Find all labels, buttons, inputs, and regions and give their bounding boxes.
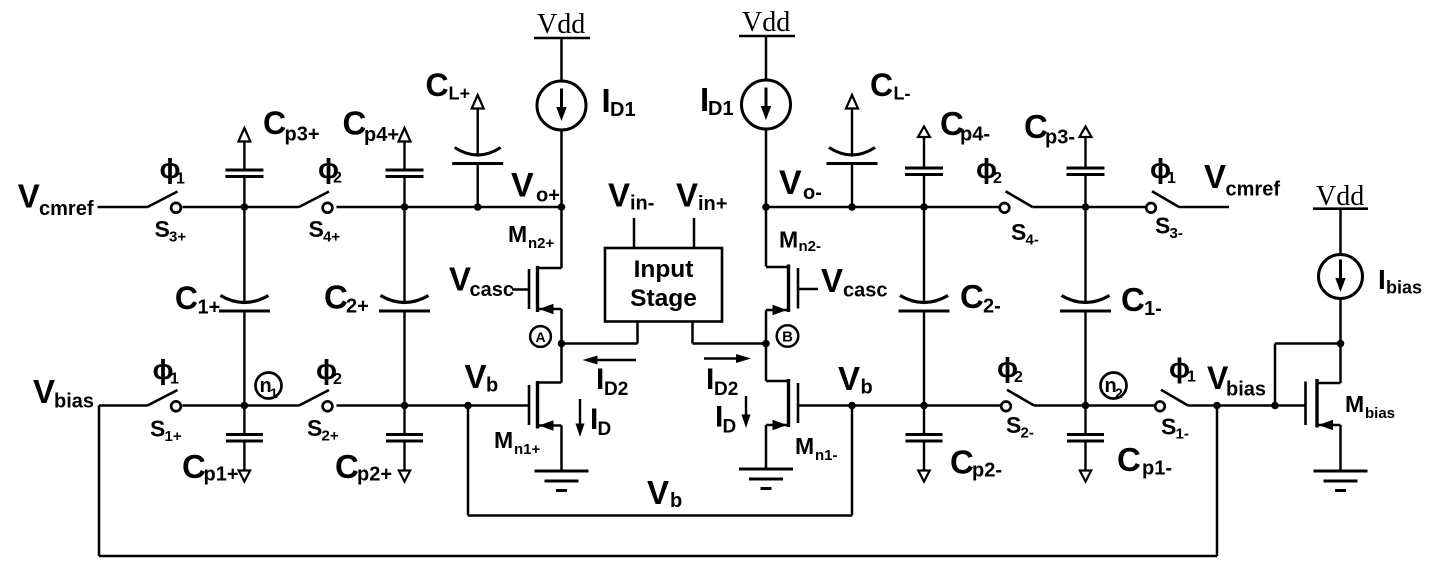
svg-text:o+: o+ bbox=[536, 185, 560, 207]
svg-text:1-: 1- bbox=[1144, 298, 1162, 320]
capacitor Cp1- bbox=[1067, 406, 1104, 482]
wire Vb junction to Cp2- node bbox=[852, 404, 924, 407]
label Vin- bbox=[608, 177, 654, 215]
svg-text:1+: 1+ bbox=[165, 428, 182, 445]
label C2+ bbox=[324, 279, 369, 318]
capacitor Cp3+ bbox=[225, 128, 263, 207]
current arrow ID (left) bbox=[576, 399, 585, 437]
junction n2 node on Vbias rail bbox=[1082, 402, 1090, 410]
junction Cp3+ / C1+ node on Vcmref rail bbox=[241, 203, 249, 211]
label Cp4+ bbox=[343, 105, 400, 147]
svg-text:o-: o- bbox=[803, 182, 822, 204]
capacitor Cp2+ bbox=[386, 406, 423, 482]
svg-text:S: S bbox=[155, 216, 170, 242]
node Vo+ junction bbox=[558, 203, 566, 211]
wire Vdd to current source Ibias bbox=[1339, 209, 1342, 255]
svg-text:n2-: n2- bbox=[799, 238, 822, 255]
label phi2 of S2+ bbox=[316, 354, 342, 388]
svg-text:4-: 4- bbox=[1026, 232, 1039, 249]
wire Cp3- node to switch S3- bbox=[1086, 206, 1147, 209]
svg-text:bias: bias bbox=[1386, 278, 1422, 298]
label Vbias (right) bbox=[1207, 360, 1266, 401]
wire n2 node to switch S1- bbox=[1086, 404, 1156, 407]
label Cp3+ bbox=[263, 105, 320, 146]
wire Vbias bottom rail right vertical bbox=[1216, 406, 1219, 557]
label S2+ bbox=[307, 415, 339, 445]
svg-text:M: M bbox=[494, 427, 513, 453]
label Cp4- bbox=[940, 105, 990, 146]
wire Vcmref to switch S3+ bbox=[98, 206, 148, 209]
label S3+ bbox=[155, 216, 187, 246]
switch S2- bbox=[1001, 390, 1034, 411]
wire Mn1- gate to Vb junction (right) bbox=[798, 404, 852, 407]
switch S3- bbox=[1146, 191, 1179, 212]
current source ID1 (right) bbox=[742, 80, 791, 129]
transistor Mn1+ bbox=[529, 381, 562, 431]
svg-text:S: S bbox=[1161, 414, 1176, 440]
svg-text:S: S bbox=[1006, 412, 1021, 438]
svg-text:M: M bbox=[779, 227, 798, 253]
svg-text:C: C bbox=[870, 67, 893, 103]
label phi1 of S1+ bbox=[153, 354, 180, 388]
svg-text:V: V bbox=[779, 164, 802, 202]
wire Vbias bottom rail left vertical bbox=[98, 406, 101, 557]
label S1+ bbox=[150, 416, 182, 446]
label ID (left) bbox=[590, 403, 611, 440]
label phi1 of S1- bbox=[1169, 353, 1196, 386]
svg-text:4+: 4+ bbox=[323, 229, 340, 246]
svg-text:Vdd: Vdd bbox=[1316, 181, 1364, 212]
label Vbias (left) bbox=[33, 373, 94, 413]
svg-text:1-: 1- bbox=[1176, 426, 1189, 443]
wire S3- to Vcmref (right) bbox=[1179, 206, 1229, 209]
svg-text:p1-: p1- bbox=[1142, 458, 1172, 480]
svg-text:V: V bbox=[18, 178, 40, 215]
wire node B to Mn1- drain bbox=[765, 344, 768, 382]
wire Vdd to current source ID1 (left) bbox=[560, 38, 563, 81]
svg-text:in-: in- bbox=[630, 193, 654, 215]
current arrow ID2 (right) bbox=[704, 354, 751, 363]
wire node A to Mn1+ drain bbox=[560, 344, 563, 383]
wire input stage right lead to node B bbox=[693, 342, 767, 345]
svg-text:3+: 3+ bbox=[169, 229, 186, 246]
wire Vb junction to Mn1+ gate bbox=[468, 404, 529, 407]
svg-text:n1-: n1- bbox=[815, 447, 838, 464]
capacitor Cp2- bbox=[906, 406, 943, 482]
label Mn2- bbox=[779, 227, 821, 256]
node n1 bbox=[256, 373, 282, 402]
label phi2 of S4- bbox=[976, 153, 1002, 187]
label phi2 of S2- bbox=[997, 352, 1023, 386]
svg-text:C: C bbox=[335, 448, 359, 485]
svg-text:2+: 2+ bbox=[346, 296, 369, 318]
wire Vb bottom rail left vertical bbox=[467, 406, 470, 516]
switch S4- bbox=[1000, 191, 1033, 212]
junction CL- node bbox=[848, 203, 856, 211]
wire Cp4- node to switch S4- bbox=[924, 206, 1000, 209]
svg-text:S: S bbox=[1155, 213, 1170, 239]
wire Mn1+ source to ground bbox=[560, 426, 563, 472]
svg-text:I: I bbox=[1378, 264, 1386, 295]
ground of Mn1- bbox=[739, 469, 793, 489]
svg-text:p2+: p2+ bbox=[357, 464, 392, 486]
ground of Mn1+ bbox=[535, 471, 589, 491]
svg-text:2-: 2- bbox=[1021, 425, 1034, 442]
label Vo- bbox=[779, 164, 822, 204]
svg-text:p1+: p1+ bbox=[204, 464, 239, 486]
svg-text:2-: 2- bbox=[983, 296, 1001, 318]
svg-text:p4+: p4+ bbox=[364, 124, 399, 146]
transistor Mn1- bbox=[766, 379, 798, 430]
wire Vb bottom rail horizontal bbox=[468, 514, 852, 517]
svg-text:V: V bbox=[511, 167, 534, 205]
wire Vcasc to Mn2+ gate bbox=[512, 288, 529, 291]
junction Vb rail drop (right) bbox=[848, 402, 856, 410]
wire diode feedback vertical bbox=[1274, 344, 1277, 406]
wire Mn2+ source to node A junction bbox=[560, 309, 563, 344]
svg-text:2: 2 bbox=[1014, 369, 1023, 386]
wire CL+ node to Vo+ node bbox=[478, 206, 562, 209]
current arrow ID (right) bbox=[742, 396, 751, 428]
label Vb (left gate) bbox=[465, 358, 499, 397]
wire S1+ to n1 node bbox=[183, 404, 245, 407]
capacitor C2+ bbox=[379, 207, 430, 406]
switch S4+ bbox=[299, 192, 332, 213]
svg-text:L-: L- bbox=[894, 84, 911, 104]
svg-text:M: M bbox=[1345, 391, 1364, 417]
capacitor CL+ bbox=[452, 95, 503, 207]
label ID1 (right) bbox=[700, 81, 734, 120]
label S3- bbox=[1155, 213, 1183, 243]
wire Ibias to Mbias drain junction bbox=[1339, 299, 1342, 384]
junction n1 node on Vbias rail bbox=[241, 402, 249, 410]
label S2- bbox=[1006, 412, 1034, 442]
svg-text:C: C bbox=[426, 67, 449, 103]
junction Cp3- / C1- node bbox=[1082, 203, 1090, 211]
switch S2+ bbox=[299, 390, 332, 411]
svg-text:V: V bbox=[647, 474, 669, 511]
capacitor C1+ bbox=[219, 207, 270, 406]
svg-text:D1: D1 bbox=[610, 99, 636, 121]
svg-text:p2-: p2- bbox=[972, 460, 1002, 482]
junction node B bbox=[762, 340, 770, 348]
svg-text:b: b bbox=[670, 490, 682, 512]
svg-text:p4-: p4- bbox=[960, 124, 990, 146]
svg-text:1: 1 bbox=[176, 171, 185, 188]
svg-text:n1+: n1+ bbox=[514, 441, 541, 458]
power Vdd (bias) bbox=[1313, 181, 1368, 212]
wire diode feedback horizontal bbox=[1275, 342, 1341, 345]
wire S3+ to node of Cp3+ bbox=[183, 206, 245, 209]
label S4+ bbox=[309, 216, 341, 246]
svg-text:C: C bbox=[960, 278, 984, 315]
svg-text:C: C bbox=[1121, 281, 1145, 318]
svg-text:Stage: Stage bbox=[630, 285, 697, 312]
junction node A bbox=[558, 340, 566, 348]
svg-text:M: M bbox=[508, 221, 527, 247]
wire S2- to n2 node bbox=[1034, 404, 1086, 407]
capacitor C1- bbox=[1060, 207, 1111, 406]
svg-text:b: b bbox=[861, 377, 873, 399]
svg-text:2: 2 bbox=[333, 371, 342, 388]
svg-text:D: D bbox=[723, 417, 737, 438]
svg-text:B: B bbox=[782, 329, 793, 346]
wire node A to input stage left lead bbox=[562, 342, 638, 345]
svg-text:C: C bbox=[175, 280, 198, 316]
wire Vbias bottom rail horizontal bbox=[99, 555, 1217, 558]
junction CL+ node bbox=[474, 203, 482, 211]
svg-text:1: 1 bbox=[1187, 369, 1196, 386]
label ID1 (left) bbox=[602, 82, 636, 121]
wire Vbias to switch S1+ bbox=[99, 404, 148, 407]
switch S1+ bbox=[148, 390, 181, 411]
node Vo- junction bbox=[762, 203, 770, 211]
svg-text:S: S bbox=[1011, 219, 1026, 245]
svg-text:b: b bbox=[486, 375, 498, 397]
label Vin+ bbox=[676, 177, 727, 216]
label Mn1- bbox=[795, 433, 838, 464]
junction Vbias bottom rail drop (right) bbox=[1213, 402, 1221, 410]
label CL+ bbox=[426, 67, 471, 104]
wire S4- to Cp3- node bbox=[1033, 206, 1086, 209]
label phi1 of S3- bbox=[1150, 153, 1176, 187]
wire Vb bottom rail right vertical bbox=[851, 406, 854, 516]
label Vcmref (left) bbox=[18, 178, 94, 221]
wire S4+ to Cp4+ node bbox=[337, 206, 405, 209]
label Mbias bbox=[1345, 391, 1395, 422]
wire Vin- lead bbox=[633, 218, 636, 248]
wire Mbias source to ground bbox=[1339, 425, 1342, 471]
svg-text:in+: in+ bbox=[698, 193, 727, 215]
wire Cp2+ node to Vb junction bbox=[405, 404, 469, 407]
wire Cp4+ node to CL+ node bbox=[405, 206, 478, 209]
svg-text:2: 2 bbox=[993, 170, 1002, 187]
label Cp2- bbox=[950, 444, 1002, 482]
svg-text:bias: bias bbox=[1365, 405, 1395, 422]
wire Mn2- drain to Vo- node bbox=[765, 207, 768, 267]
label ID (right) bbox=[715, 401, 736, 438]
wire gate junction to Mbias gate bbox=[1275, 404, 1306, 407]
wire input stage right lead bbox=[691, 321, 694, 344]
svg-text:p3-: p3- bbox=[1045, 127, 1075, 149]
label ID2 (left) bbox=[596, 363, 628, 400]
power Vdd (right) bbox=[739, 7, 795, 38]
wire Mn1- source to ground bbox=[765, 425, 768, 469]
label Cp3- bbox=[1024, 108, 1075, 149]
wire Mn2- gate to Vcasc bbox=[798, 288, 818, 291]
svg-text:Vdd: Vdd bbox=[537, 9, 585, 40]
wire Vo- node to CL- node bbox=[766, 206, 852, 209]
junction Mbias gate feedback bbox=[1271, 402, 1279, 410]
label S4- bbox=[1011, 219, 1039, 249]
label CL- bbox=[870, 67, 911, 104]
svg-text:2: 2 bbox=[1115, 385, 1123, 401]
block Input Stage bbox=[605, 248, 722, 322]
svg-text:M: M bbox=[795, 433, 814, 459]
svg-text:V: V bbox=[838, 360, 860, 397]
svg-text:n2+: n2+ bbox=[528, 235, 555, 252]
label Cp1+ bbox=[182, 448, 239, 486]
junction Cp2+ node bbox=[401, 402, 409, 410]
wire CL- node to Cp4- node bbox=[852, 206, 924, 209]
transistor Mn2+ bbox=[529, 266, 562, 314]
current arrow ID2 (left) bbox=[583, 356, 637, 365]
junction Cp4- / C2- node bbox=[920, 203, 928, 211]
svg-text:V: V bbox=[465, 358, 487, 395]
label Cp1- bbox=[1117, 441, 1172, 480]
wire Cp2- node to switch S2- bbox=[924, 404, 1001, 407]
label Vcasc (right) bbox=[821, 262, 888, 302]
wire S2+ to Cp2+ node bbox=[337, 404, 405, 407]
junction Cp4+ / C2+ node bbox=[401, 203, 409, 211]
svg-text:C: C bbox=[343, 105, 367, 142]
label phi2 of S4+ bbox=[318, 153, 342, 187]
svg-text:L+: L+ bbox=[449, 84, 471, 104]
transistor Mbias bbox=[1306, 379, 1341, 430]
svg-text:2: 2 bbox=[333, 170, 342, 187]
svg-text:C: C bbox=[324, 279, 348, 316]
svg-text:p3+: p3+ bbox=[285, 124, 320, 146]
label C1- bbox=[1121, 281, 1162, 320]
svg-text:C: C bbox=[182, 448, 206, 485]
wire Vdd to current source ID1 (right) bbox=[765, 36, 768, 80]
capacitor Cp3- bbox=[1067, 127, 1105, 208]
svg-text:V: V bbox=[676, 177, 698, 214]
label Mn1+ bbox=[494, 427, 541, 458]
svg-text:V: V bbox=[608, 177, 630, 214]
svg-text:S: S bbox=[150, 416, 165, 442]
svg-text:1: 1 bbox=[270, 385, 278, 401]
svg-text:1: 1 bbox=[170, 371, 179, 388]
label C1+ bbox=[175, 280, 220, 319]
wire Vo+ node to Mn2+ drain bbox=[560, 207, 563, 268]
label Mn2+ bbox=[508, 221, 555, 252]
svg-text:S: S bbox=[309, 216, 324, 242]
label C2- bbox=[960, 278, 1001, 318]
svg-text:1+: 1+ bbox=[198, 297, 221, 319]
label Vb (right gate) bbox=[838, 360, 873, 399]
junction Cp2- node bbox=[920, 402, 928, 410]
wire Vbias junction to Mbias gate branch bbox=[1217, 404, 1275, 407]
label Cp2+ bbox=[335, 448, 392, 486]
transistor Mn2- bbox=[766, 265, 798, 316]
svg-text:2+: 2+ bbox=[322, 428, 339, 445]
svg-text:D2: D2 bbox=[714, 379, 738, 400]
junction Vb rail drop (left) bbox=[464, 402, 472, 410]
wire Vin+ lead bbox=[693, 218, 696, 248]
label phi1 of S3+ bbox=[160, 153, 186, 188]
current source ID1 (left) bbox=[537, 81, 586, 130]
svg-text:D2: D2 bbox=[604, 379, 628, 400]
wire n1 node to switch S2+ bbox=[244, 404, 299, 407]
svg-text:D: D bbox=[598, 419, 612, 440]
svg-text:Input: Input bbox=[634, 256, 694, 283]
svg-text:bias: bias bbox=[54, 391, 94, 413]
svg-text:V: V bbox=[1204, 158, 1226, 195]
svg-text:1: 1 bbox=[1167, 170, 1176, 187]
wire ID1 to Vo- node bbox=[765, 129, 768, 207]
wire S1- to Vbias rail junction bbox=[1188, 404, 1217, 407]
svg-text:V: V bbox=[449, 261, 471, 298]
svg-text:V: V bbox=[821, 262, 843, 299]
svg-text:3-: 3- bbox=[1170, 225, 1183, 242]
wire node B to Mn2- source bbox=[765, 310, 768, 344]
svg-text:V: V bbox=[33, 373, 55, 410]
svg-text:C: C bbox=[950, 444, 974, 481]
svg-text:D1: D1 bbox=[708, 98, 734, 120]
wire input stage left lead bbox=[636, 321, 639, 344]
svg-text:casc: casc bbox=[470, 279, 515, 301]
node n2 bbox=[1101, 373, 1127, 402]
wire Cp3+ node to switch S4+ bbox=[244, 206, 299, 209]
label Vb (bottom rail) bbox=[647, 474, 682, 512]
switch S1- bbox=[1155, 390, 1188, 411]
capacitor CL- bbox=[827, 95, 878, 207]
capacitor Cp4- bbox=[905, 127, 943, 208]
svg-text:A: A bbox=[535, 329, 545, 345]
svg-text:S: S bbox=[307, 415, 322, 441]
svg-text:Vdd: Vdd bbox=[742, 7, 790, 38]
label Vcasc (left) bbox=[449, 261, 514, 302]
svg-text:C: C bbox=[263, 105, 286, 141]
wire ID1 to Vo+ node bbox=[560, 130, 563, 207]
svg-text:C: C bbox=[1117, 441, 1141, 478]
power Vdd (left) bbox=[534, 9, 590, 40]
ground of Mbias bbox=[1314, 471, 1368, 491]
switch S3+ bbox=[148, 192, 181, 213]
svg-text:cmref: cmref bbox=[39, 198, 94, 220]
label Vo+ bbox=[511, 167, 560, 207]
label ID2 (right) bbox=[706, 363, 738, 400]
junction Mbias drain diode connection bbox=[1337, 340, 1345, 348]
node A bbox=[530, 326, 551, 347]
capacitor Cp1+ bbox=[226, 406, 263, 482]
label Ibias bbox=[1378, 264, 1422, 298]
label Vcmref (right) bbox=[1204, 158, 1280, 201]
svg-text:cmref: cmref bbox=[1226, 179, 1281, 201]
node B bbox=[777, 325, 799, 347]
svg-text:bias: bias bbox=[1226, 379, 1266, 401]
capacitor Cp4+ bbox=[386, 128, 424, 207]
svg-text:casc: casc bbox=[843, 280, 888, 302]
current source Ibias bbox=[1319, 255, 1363, 299]
capacitor C2- bbox=[899, 207, 950, 406]
label S1- bbox=[1161, 414, 1189, 443]
